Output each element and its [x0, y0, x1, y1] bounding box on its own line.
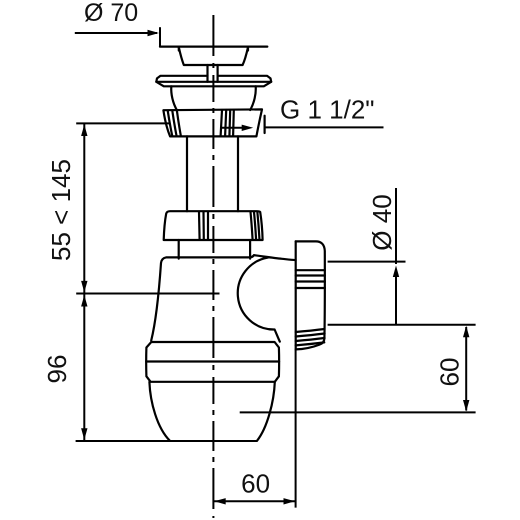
svg-text:55 < 145: 55 < 145	[46, 159, 76, 261]
svg-text:G 1 1/2": G 1 1/2"	[280, 95, 375, 125]
svg-text:60: 60	[435, 358, 465, 387]
svg-text:96: 96	[42, 355, 72, 384]
svg-text:60: 60	[241, 469, 270, 499]
svg-text:Ø 70: Ø 70	[84, 0, 138, 27]
svg-text:Ø 40: Ø 40	[367, 194, 397, 250]
